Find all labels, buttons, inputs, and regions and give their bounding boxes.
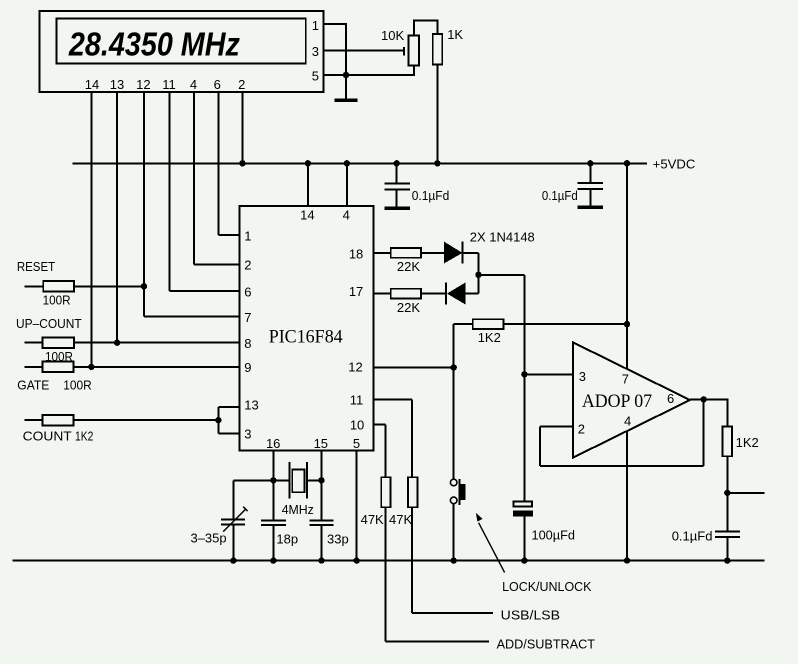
svg-text:COUNT: COUNT [23, 428, 72, 443]
svg-text:4: 4 [190, 77, 197, 92]
svg-text:14: 14 [300, 208, 314, 223]
svg-text:RESET: RESET [17, 259, 55, 274]
svg-text:8: 8 [244, 336, 251, 351]
svg-text:0.1µFd: 0.1µFd [672, 529, 713, 544]
svg-text:22K: 22K [397, 300, 420, 315]
svg-text:UP–COUNT: UP–COUNT [16, 316, 82, 331]
svg-text:18p: 18p [276, 532, 298, 547]
svg-text:12: 12 [348, 360, 362, 375]
svg-text:100µFd: 100µFd [532, 528, 576, 543]
svg-text:1K2: 1K2 [736, 435, 759, 450]
svg-text:2: 2 [578, 421, 585, 436]
svg-text:6: 6 [667, 391, 674, 406]
svg-text:USB/LSB: USB/LSB [501, 607, 560, 622]
svg-text:47K: 47K [389, 512, 412, 527]
svg-text:7: 7 [244, 310, 251, 325]
svg-text:PIC16F84: PIC16F84 [269, 327, 343, 348]
svg-text:3: 3 [244, 427, 251, 442]
svg-text:5: 5 [353, 436, 360, 451]
svg-text:10: 10 [350, 417, 364, 432]
svg-text:7: 7 [622, 372, 629, 387]
svg-text:ADOP 07: ADOP 07 [582, 391, 652, 412]
svg-text:3–35p: 3–35p [191, 530, 227, 545]
svg-text:5: 5 [312, 69, 319, 84]
svg-text:2X 1N4148: 2X 1N4148 [470, 229, 535, 244]
svg-text:22K: 22K [397, 259, 420, 274]
svg-text:2: 2 [238, 77, 245, 92]
svg-text:17: 17 [349, 284, 363, 299]
svg-text:0.1µFd: 0.1µFd [542, 188, 578, 203]
svg-text:6: 6 [214, 77, 221, 92]
svg-text:15: 15 [314, 436, 328, 451]
svg-text:100R: 100R [43, 293, 71, 308]
svg-text:10K: 10K [381, 28, 404, 43]
svg-text:4MHz: 4MHz [282, 502, 314, 517]
svg-text:+5VDC: +5VDC [653, 156, 696, 171]
svg-text:LOCK/UNLOCK: LOCK/UNLOCK [502, 579, 592, 594]
svg-text:1: 1 [244, 228, 251, 243]
svg-text:18: 18 [349, 246, 363, 261]
svg-text:3: 3 [312, 44, 319, 59]
svg-text:47K: 47K [361, 512, 384, 527]
svg-text:0.1µFd: 0.1µFd [412, 188, 450, 203]
svg-text:1K2: 1K2 [478, 330, 501, 345]
svg-text:13: 13 [110, 77, 124, 92]
svg-text:14: 14 [85, 77, 99, 92]
svg-text:1: 1 [312, 18, 319, 33]
svg-text:33p: 33p [327, 532, 349, 547]
svg-text:100R: 100R [63, 377, 91, 392]
svg-text:1K2: 1K2 [75, 428, 93, 443]
svg-text:11: 11 [162, 77, 176, 92]
svg-text:6: 6 [244, 284, 251, 299]
svg-text:13: 13 [244, 398, 258, 413]
svg-text:100R: 100R [45, 349, 73, 364]
svg-text:4: 4 [624, 414, 631, 429]
svg-text:11: 11 [350, 392, 364, 407]
svg-text:2: 2 [244, 258, 251, 273]
svg-text:16: 16 [266, 436, 280, 451]
svg-text:GATE: GATE [17, 377, 49, 392]
svg-text:12: 12 [136, 77, 150, 92]
svg-text:1K: 1K [447, 27, 463, 42]
svg-text:4: 4 [343, 208, 350, 223]
svg-text:28.4350 MHz: 28.4350 MHz [68, 26, 240, 63]
svg-text:9: 9 [244, 360, 251, 375]
svg-text:3: 3 [579, 369, 586, 384]
svg-text:ADD/SUBTRACT: ADD/SUBTRACT [497, 636, 595, 651]
